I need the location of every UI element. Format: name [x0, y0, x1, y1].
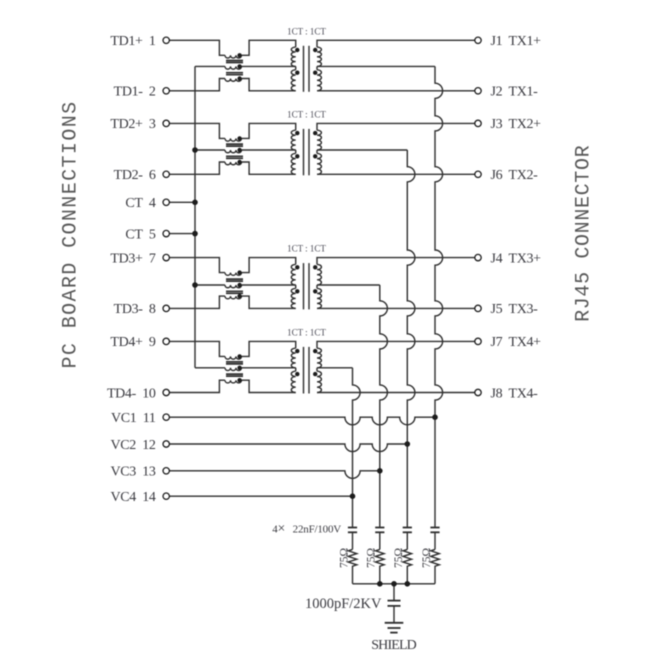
- svg-text:RJ45 CONNECTOR: RJ45 CONNECTOR: [573, 145, 596, 322]
- svg-text:J6 TX2-: J6 TX2-: [491, 168, 539, 183]
- svg-text:75Ω: 75Ω: [338, 548, 350, 568]
- svg-text:TD1+ 1: TD1+ 1: [110, 34, 155, 49]
- svg-text:J4 TX3+: J4 TX3+: [491, 251, 542, 266]
- svg-text:75Ω: 75Ω: [421, 548, 433, 568]
- svg-text:SHIELD: SHIELD: [371, 638, 416, 653]
- svg-text:75Ω: 75Ω: [366, 548, 378, 568]
- svg-text:1000pF/2KV: 1000pF/2KV: [305, 596, 382, 612]
- svg-text:TD3+ 7: TD3+ 7: [110, 251, 155, 266]
- svg-text:1CT : 1CT: 1CT : 1CT: [287, 244, 326, 254]
- svg-text:CT 5: CT 5: [125, 227, 155, 242]
- svg-text:CT 4: CT 4: [125, 196, 155, 211]
- svg-text:1CT : 1CT: 1CT : 1CT: [287, 109, 326, 119]
- svg-text:J8 TX4-: J8 TX4-: [491, 386, 539, 401]
- svg-text:TD2+ 3: TD2+ 3: [110, 117, 155, 132]
- svg-text:VC1 11: VC1 11: [111, 411, 156, 426]
- svg-text:J5 TX3-: J5 TX3-: [491, 302, 539, 317]
- svg-text:VC3 13: VC3 13: [111, 465, 156, 480]
- svg-text:TD3- 8: TD3- 8: [114, 302, 156, 317]
- svg-text:TD4+ 9: TD4+ 9: [110, 335, 155, 350]
- svg-text:J3 TX2+: J3 TX2+: [491, 117, 542, 132]
- svg-text:PC BOARD CONNECTIONS: PC BOARD CONNECTIONS: [60, 100, 83, 368]
- svg-text:1CT : 1CT: 1CT : 1CT: [287, 327, 326, 337]
- svg-text:J1 TX1+: J1 TX1+: [491, 34, 542, 49]
- svg-text:TD2- 6: TD2- 6: [114, 168, 156, 183]
- svg-text:4× 22nF/100V: 4× 22nF/100V: [272, 521, 341, 536]
- svg-text:VC4 14: VC4 14: [111, 490, 156, 505]
- svg-text:J7 TX4+: J7 TX4+: [491, 335, 542, 350]
- svg-text:J2 TX1-: J2 TX1-: [491, 85, 539, 100]
- svg-text:TD4- 10: TD4- 10: [107, 386, 156, 401]
- svg-text:TD1- 2: TD1- 2: [114, 85, 156, 100]
- svg-text:1CT : 1CT: 1CT : 1CT: [287, 26, 326, 36]
- svg-text:VC2 12: VC2 12: [111, 438, 156, 453]
- svg-text:75Ω: 75Ω: [393, 548, 405, 568]
